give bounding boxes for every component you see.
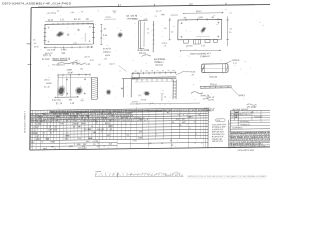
svg-text:D: D bbox=[104, 146, 106, 148]
svg-text:IB9: IB9 bbox=[66, 135, 69, 137]
svg-text:8X .19: 8X .19 bbox=[74, 19, 81, 21]
svg-text:PF .70: PF .70 bbox=[72, 64, 79, 66]
svg-text:+.64: +.64 bbox=[70, 12, 75, 14]
view V2 bottom edge bbox=[139, 48, 145, 50]
svg-text:6H461N 72: 6H461N 72 bbox=[240, 124, 250, 126]
svg-text:TLC: TLC bbox=[176, 119, 180, 121]
rail end bracket bbox=[172, 80, 174, 100]
svg-text:KL: KL bbox=[170, 140, 172, 142]
svg-text:17: 17 bbox=[175, 173, 178, 177]
svg-text:D9: D9 bbox=[93, 144, 95, 146]
view V4 inner top edge bbox=[58, 76, 91, 78]
svg-text:6: 6 bbox=[36, 136, 37, 138]
handwritten check mark bbox=[191, 92, 203, 94]
svg-text:D970-034974_ASSEMBLY-4F_G/14-P: D970-034974_ASSEMBLY-4F_G/14-P4GO bbox=[2, 2, 72, 6]
svg-text:Ø.283 FRNI: Ø.283 FRNI bbox=[137, 50, 149, 52]
svg-text:HI1S: HI1S bbox=[191, 72, 196, 74]
view V1 left edge ticks bbox=[44, 28, 47, 30]
svg-text:24-9: 24-9 bbox=[216, 120, 220, 122]
svg-text:4.19: 4.19 bbox=[143, 19, 148, 21]
svg-text:.78 DB: .78 DB bbox=[140, 99, 147, 101]
svg-text:8X Ø.393A: 8X Ø.393A bbox=[154, 58, 166, 61]
view V1 inner vertical line bbox=[84, 33, 86, 42]
lower bar top edge bbox=[200, 85, 231, 87]
view V4 top dimension line bbox=[58, 74, 91, 76]
title block revision rows bbox=[230, 112, 270, 115]
view V3 left leader bbox=[171, 14, 179, 16]
svg-text:5G6G5BV: 5G6G5BV bbox=[254, 116, 263, 118]
svg-text:.23 KG: .23 KG bbox=[105, 17, 111, 19]
svg-text:9: 9 bbox=[30, 136, 31, 138]
svg-text:.01: .01 bbox=[229, 28, 233, 30]
svg-text:U01: U01 bbox=[97, 129, 100, 131]
svg-text:UKF4R V34: UKF4R V34 bbox=[212, 141, 224, 143]
svg-text:65: 65 bbox=[145, 70, 147, 72]
svg-text:.01 3.38: .01 3.38 bbox=[47, 49, 56, 51]
svg-text:.940: .940 bbox=[61, 53, 66, 55]
table column lines bbox=[31, 110, 33, 150]
view V4 hole marks bbox=[66, 79, 68, 81]
svg-text:.32 PSS: .32 PSS bbox=[131, 102, 139, 104]
view V1 handwritten note row bbox=[58, 62, 86, 64]
frame left border bbox=[30, 8, 31, 151]
frame bottom border bbox=[30, 147, 271, 150]
view V2 right wall ticks bbox=[153, 24, 155, 26]
svg-text:5K6: 5K6 bbox=[109, 144, 112, 146]
scan header underline bbox=[38, 5, 62, 7]
svg-text:7: 7 bbox=[36, 130, 37, 132]
svg-text:5: 5 bbox=[36, 121, 37, 123]
svg-text:E1 .78: E1 .78 bbox=[56, 103, 63, 105]
svg-text:5: 5 bbox=[36, 145, 37, 147]
view V3 bottom dimension line bbox=[181, 49, 221, 52]
svg-text:.09: .09 bbox=[146, 28, 149, 30]
svg-text:DCN: DCN bbox=[34, 46, 39, 48]
title block mid rows bbox=[230, 121, 270, 124]
svg-text:D970-034974 1684: D970-034974 1684 bbox=[237, 150, 253, 152]
svg-text:-.36 .02 NA: -.36 .02 NA bbox=[46, 12, 57, 15]
table lower sparse rows bbox=[30, 142, 118, 143]
svg-text:0X R.78: 0X R.78 bbox=[103, 48, 111, 50]
svg-text:2X: 2X bbox=[33, 39, 36, 41]
view V4 pencil smudge mid bbox=[75, 87, 83, 95]
view V2 left wall bbox=[137, 21, 139, 49]
svg-text:4X .131 NI: 4X .131 NI bbox=[126, 15, 137, 17]
svg-text:.26 LI: .26 LI bbox=[74, 60, 79, 62]
view V3 bottom tabs bbox=[183, 40, 188, 43]
table top line bbox=[30, 108, 208, 110]
svg-text:.81: .81 bbox=[98, 64, 102, 66]
small dim near rail end bbox=[161, 93, 163, 101]
svg-text:V5H: V5H bbox=[86, 141, 90, 143]
svg-text:1: 1 bbox=[36, 127, 37, 129]
svg-text:0: 0 bbox=[82, 118, 83, 120]
svg-text:9: 9 bbox=[30, 142, 31, 144]
view V4 hatched wall bbox=[90, 78, 92, 100]
svg-text:4.82: 4.82 bbox=[86, 64, 91, 66]
title block inner vertical bbox=[237, 111, 239, 126]
svg-text:71: 71 bbox=[156, 70, 158, 72]
svg-text:01: 01 bbox=[78, 126, 80, 128]
view V2 inner line bbox=[143, 22, 145, 47]
svg-text:47: 47 bbox=[49, 127, 51, 129]
view V1 small holes bbox=[67, 34, 69, 36]
svg-text:.35: .35 bbox=[33, 43, 37, 45]
svg-text:.03: .03 bbox=[113, 12, 116, 14]
svg-text:.69 NM: .69 NM bbox=[186, 46, 193, 48]
svg-text:MA: MA bbox=[97, 145, 101, 148]
svg-text:.60: .60 bbox=[85, 19, 89, 21]
view V4 extra inner verticals bbox=[61, 77, 63, 97]
svg-text:TNL: TNL bbox=[56, 116, 60, 118]
svg-text:M4I: M4I bbox=[46, 139, 50, 141]
svg-text:L: L bbox=[91, 113, 92, 115]
svg-text:K1: K1 bbox=[50, 133, 52, 135]
view V2 inner wall bbox=[139, 21, 141, 49]
svg-text:5.94: 5.94 bbox=[103, 35, 108, 37]
dim line left of view V2 top bbox=[104, 18, 116, 20]
svg-text:15: 15 bbox=[167, 70, 169, 72]
rail body stud marks bbox=[136, 79, 138, 82]
title block dense company rows bbox=[230, 130, 270, 133]
view V4 pencil smudge right bbox=[106, 89, 112, 95]
svg-text:.13: .13 bbox=[163, 45, 166, 47]
svg-text:0U0: 0U0 bbox=[150, 103, 153, 105]
svg-text:0X 5.18: 0X 5.18 bbox=[155, 65, 163, 67]
svg-text:NA3: NA3 bbox=[81, 147, 85, 150]
svg-text:4U6MU: 4U6MU bbox=[205, 111, 212, 113]
svg-text:BN3L5: BN3L5 bbox=[239, 95, 246, 97]
ruler dark tick bbox=[116, 173, 118, 178]
svg-text:3.21: 3.21 bbox=[60, 19, 65, 21]
svg-text:E27EHE2L: E27EHE2L bbox=[240, 121, 249, 123]
left frame tick mid bbox=[28, 63, 32, 65]
svg-text:K60X: K60X bbox=[105, 55, 111, 57]
svg-text:38: 38 bbox=[134, 71, 136, 73]
view V3 right vertical dimension bbox=[226, 17, 228, 47]
view V3 corner marks bbox=[181, 22, 183, 24]
svg-text:46: 46 bbox=[107, 135, 109, 137]
svg-text:E45 P9B I70: E45 P9B I70 bbox=[241, 114, 251, 116]
rail end leader bbox=[176, 72, 182, 75]
svg-text:3.11: 3.11 bbox=[233, 63, 238, 65]
svg-text:9: 9 bbox=[47, 127, 48, 129]
zone tick on left border bbox=[27, 43, 31, 45]
rail pencil smudge bbox=[143, 91, 150, 96]
long thin edge above table right bbox=[130, 102, 200, 105]
ruler baseline bbox=[95, 175, 183, 177]
svg-text:07: 07 bbox=[194, 122, 196, 124]
view V1 right edge ticks bbox=[92, 26, 95, 28]
rail bracket right leg bbox=[130, 79, 132, 98]
svg-text:0G4: 0G4 bbox=[189, 116, 193, 118]
view V4 pencil smudge left bbox=[57, 86, 65, 97]
view V4 left edge bbox=[57, 76, 59, 98]
svg-text:A2G: A2G bbox=[78, 147, 82, 150]
svg-text:3: 3 bbox=[36, 124, 37, 126]
svg-text:3: 3 bbox=[189, 128, 190, 130]
svg-text:78: 78 bbox=[151, 70, 153, 72]
svg-text:E398V-97: E398V-97 bbox=[200, 56, 210, 58]
svg-text:1PM .66: 1PM .66 bbox=[209, 77, 218, 79]
svg-text:VL: VL bbox=[198, 114, 200, 116]
view V4 bottom dimension line bbox=[56, 96, 79, 98]
lower bar leader bbox=[231, 88, 238, 95]
svg-text:SECTION B-B: SECTION B-B bbox=[52, 57, 70, 61]
view V2 top edge bbox=[139, 19, 148, 21]
rail body bottom edge bbox=[132, 77, 176, 80]
frame top border bbox=[31, 5, 270, 8]
svg-text:RH5: RH5 bbox=[43, 148, 47, 150]
svg-text:9: 9 bbox=[30, 139, 31, 141]
svg-text:1T9: 1T9 bbox=[55, 121, 58, 123]
svg-text:10.43: 10.43 bbox=[47, 20, 53, 22]
ruler left dash bbox=[95, 171, 101, 173]
svg-text:N89: N89 bbox=[161, 14, 166, 16]
rail bracket cross mark bbox=[121, 87, 123, 89]
svg-text:D970-034974 SHEET 1: D970-034974 SHEET 1 bbox=[25, 110, 27, 133]
svg-text:33: 33 bbox=[162, 70, 164, 72]
svg-text:.182: .182 bbox=[68, 99, 73, 101]
view V1 pencil smudge bbox=[56, 31, 65, 37]
svg-text:7XP: 7XP bbox=[80, 100, 84, 102]
svg-text:.50: .50 bbox=[164, 28, 167, 30]
svg-text:09: 09 bbox=[172, 70, 174, 72]
svg-text:.74: .74 bbox=[80, 11, 83, 13]
svg-text:.49: .49 bbox=[211, 17, 215, 19]
rail lower faint edge bbox=[135, 80, 176, 83]
svg-text:1: 1 bbox=[36, 142, 37, 144]
svg-text:4.893: 4.893 bbox=[66, 70, 72, 72]
vertical dimension line left of V3 bbox=[169, 18, 171, 41]
svg-text:.83 PD: .83 PD bbox=[208, 100, 215, 102]
svg-text:2: 2 bbox=[81, 132, 82, 134]
view V1 top dimension line bbox=[45, 20, 94, 23]
svg-text:3: 3 bbox=[74, 144, 75, 146]
svg-text:3.88: 3.88 bbox=[198, 17, 203, 19]
svg-text:4.: 4. bbox=[181, 174, 184, 178]
svg-text:9.083: 9.083 bbox=[61, 49, 67, 51]
ruler ticks bbox=[95, 174, 97, 177]
svg-text:F0: F0 bbox=[161, 143, 163, 145]
svg-text:SHM: SHM bbox=[138, 137, 143, 139]
svg-text:6: 6 bbox=[97, 118, 98, 120]
roller body bbox=[202, 64, 229, 73]
view V1 outline bbox=[45, 24, 94, 45]
ruler scribbles bbox=[128, 172, 180, 176]
svg-text:.09 LS: .09 LS bbox=[44, 79, 50, 81]
lower bar bottom edge bbox=[200, 87, 231, 89]
svg-text:REPRODUCTION OF THIS LINE IS D: REPRODUCTION OF THIS LINE IS DUE TO THE … bbox=[188, 175, 268, 178]
svg-text:3.0: 3.0 bbox=[171, 31, 174, 33]
svg-text:N9: N9 bbox=[50, 130, 52, 132]
svg-text:1.62: 1.62 bbox=[73, 43, 77, 45]
view V1 top edge ticks bbox=[52, 23, 54, 25]
svg-text:7: 7 bbox=[30, 127, 31, 129]
svg-text:8.20: 8.20 bbox=[90, 60, 95, 62]
svg-text:R1: R1 bbox=[172, 122, 174, 124]
roller center line bbox=[201, 67, 230, 69]
svg-text:ML: ML bbox=[110, 129, 113, 131]
svg-text:N4: N4 bbox=[127, 135, 129, 137]
svg-text:7: 7 bbox=[30, 148, 31, 150]
svg-text:V0I0PNRC0: V0I0PNRC0 bbox=[232, 127, 242, 129]
leader from rail bracket bbox=[119, 66, 127, 72]
roller leader bbox=[225, 61, 232, 64]
svg-text:SCALE 1/2 WT 44.5 LB SHEET 1 O: SCALE 1/2 WT 44.5 LB SHEET 1 OF 2 QA bbox=[231, 145, 266, 148]
svg-text:F51P .91: F51P .91 bbox=[43, 55, 52, 57]
svg-text:.71: .71 bbox=[229, 12, 233, 14]
view V3 top edge ticks bbox=[185, 18, 187, 21]
svg-text:.75 FMMG: .75 FMMG bbox=[127, 19, 138, 21]
svg-text:.15: .15 bbox=[103, 28, 107, 30]
view V2 right wall bbox=[152, 21, 154, 52]
table header underline bbox=[30, 111, 208, 113]
title block top line bbox=[230, 109, 270, 112]
svg-text:E0: E0 bbox=[229, 32, 231, 34]
svg-text:P2: P2 bbox=[57, 11, 59, 13]
roller hatch bbox=[202, 65, 204, 71]
svg-text:D9NCU: D9NCU bbox=[103, 52, 111, 54]
svg-text:34: 34 bbox=[140, 71, 142, 73]
title block stamp column bbox=[227, 120, 229, 149]
table row lines bbox=[30, 114, 208, 116]
svg-text:72: 72 bbox=[111, 126, 113, 128]
svg-text:79C: 79C bbox=[138, 95, 142, 97]
svg-text:95.37: 95.37 bbox=[196, 11, 202, 13]
svg-text:LFN: LFN bbox=[133, 140, 137, 142]
svg-text:3.91 C3S: 3.91 C3S bbox=[52, 100, 61, 102]
svg-text:M8N: M8N bbox=[81, 123, 86, 125]
svg-text:8: 8 bbox=[30, 133, 31, 135]
svg-text:6X NXR: 6X NXR bbox=[42, 59, 50, 61]
view V4 inner vertical bbox=[69, 76, 71, 98]
svg-text:.84 5.14: .84 5.14 bbox=[57, 64, 65, 66]
svg-text:D53: D53 bbox=[101, 129, 104, 131]
svg-text:.09 ST: .09 ST bbox=[84, 57, 91, 59]
svg-text:KL: KL bbox=[171, 145, 173, 147]
svg-text:3.28: 3.28 bbox=[201, 45, 206, 47]
svg-text:9: 9 bbox=[88, 118, 89, 120]
disclaimer underline bbox=[188, 177, 267, 179]
svg-text:.88: .88 bbox=[80, 69, 84, 71]
svg-text:35 .87: 35 .87 bbox=[156, 11, 162, 13]
svg-text:5: 5 bbox=[36, 133, 37, 135]
svg-text:3U: 3U bbox=[147, 32, 150, 34]
svg-text:R73-01: R73-01 bbox=[210, 84, 218, 86]
rail bracket tab bbox=[132, 73, 139, 78]
svg-text:AD9M: AD9M bbox=[46, 82, 52, 85]
rail dimension chain bbox=[132, 72, 176, 75]
table right edge line bbox=[207, 108, 209, 148]
svg-text:P2: P2 bbox=[43, 121, 45, 123]
view V3 pencil smudge bbox=[200, 27, 206, 34]
rail body top edge bbox=[132, 76, 176, 79]
svg-text:.38: .38 bbox=[191, 74, 195, 76]
scan noise specks bbox=[256, 20, 259, 22]
svg-text:LP6: LP6 bbox=[95, 141, 98, 143]
svg-text:.25 4F: .25 4F bbox=[67, 72, 74, 74]
svg-text:NC1: NC1 bbox=[107, 123, 111, 125]
svg-text:XXG: XXG bbox=[50, 141, 55, 143]
rail bracket top flange bbox=[122, 77, 135, 79]
svg-text:DAC: DAC bbox=[65, 137, 70, 140]
title block left edge bbox=[229, 111, 231, 148]
svg-text:2.48: 2.48 bbox=[70, 103, 75, 105]
vertical dimension line between views bbox=[100, 25, 102, 46]
svg-text:T2M: T2M bbox=[93, 120, 97, 122]
zone tick marks on top border bbox=[118, 4, 120, 7]
title block revision columns bbox=[251, 111, 253, 121]
view V1 corner hole marks bbox=[48, 27, 50, 29]
rail bracket left leg bbox=[122, 79, 124, 98]
roller end caps bbox=[203, 64, 205, 73]
svg-text:UB5: UB5 bbox=[77, 144, 81, 146]
svg-text:5BR: 5BR bbox=[38, 124, 42, 126]
svg-text:C20BH 1: C20BH 1 bbox=[154, 62, 164, 64]
svg-text:U0M: U0M bbox=[53, 129, 57, 131]
table header band shading bbox=[49, 109, 208, 114]
view V1 bottom dimension line bbox=[45, 46, 93, 49]
svg-text:9: 9 bbox=[36, 148, 37, 150]
view V3 outline bbox=[178, 19, 222, 39]
svg-text:DR3: DR3 bbox=[69, 146, 73, 148]
view V3 inner line bbox=[196, 35, 210, 37]
notes bubble bbox=[216, 119, 226, 122]
svg-text:.59: .59 bbox=[104, 58, 108, 60]
svg-text:B3L-0: B3L-0 bbox=[109, 64, 115, 66]
svg-text:5: 5 bbox=[30, 145, 31, 147]
svg-text:902 83: 902 83 bbox=[139, 53, 146, 55]
svg-text:4X .30: 4X .30 bbox=[44, 86, 51, 88]
svg-text:5: 5 bbox=[30, 124, 31, 126]
svg-text:.73: .73 bbox=[163, 96, 167, 98]
svg-text:4: 4 bbox=[30, 130, 31, 132]
svg-text:.72: .72 bbox=[154, 16, 158, 18]
svg-text:6: 6 bbox=[36, 139, 37, 141]
svg-text:2: 2 bbox=[30, 121, 31, 123]
view V2 bottom bracket bbox=[142, 55, 152, 57]
view V3 upper dimension line bbox=[183, 12, 223, 15]
lower bar end ticks bbox=[199, 86, 201, 88]
svg-text:303: 303 bbox=[88, 129, 91, 131]
pencil smudge mid bbox=[117, 32, 123, 38]
